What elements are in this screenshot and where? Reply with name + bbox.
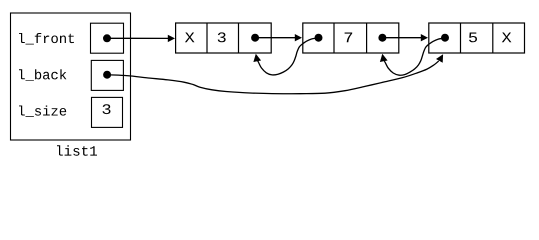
label l_size — [19, 106, 66, 118]
arrow l_front to node 1 (line) — [107, 37, 169, 39]
node 2 cell divider 1 — [333, 23, 335, 53]
arrow l_back to node 3 (curve) — [107, 61, 439, 94]
node 2 box — [303, 23, 399, 53]
node 1 prev value X (null) — [185, 33, 195, 43]
node 1 data value 3 — [218, 32, 226, 42]
l_back pointer dot — [103, 71, 111, 79]
l_size value 3 — [103, 104, 111, 114]
node 2 data value 7 — [345, 33, 353, 43]
l_front pointer dot — [103, 34, 111, 42]
arrow l_front to node 1 (head) — [168, 35, 175, 42]
node 3 cell divider 1 — [460, 23, 462, 53]
node 2 prev pointer dot — [315, 34, 323, 42]
list object outer box — [11, 13, 131, 140]
arrow node 3 prev to node 2 (head) — [380, 54, 388, 62]
label l_back — [19, 69, 66, 81]
node 1 box — [176, 23, 272, 53]
label list1 — [57, 145, 97, 155]
node 3 next value X (null) — [502, 33, 512, 43]
l_front pointer box — [91, 23, 124, 53]
arrow node 1 next to node 2 (head) — [295, 34, 302, 41]
arrow node 3 prev to node 2 (curve) — [384, 38, 445, 75]
label l_front — [19, 33, 74, 45]
arrow node 1 next to node 2 (line) — [255, 37, 296, 39]
node 2 cell divider 2 — [366, 23, 368, 53]
arrow l_back to node 3 (head) — [436, 54, 443, 63]
node 2 next pointer dot — [378, 34, 386, 42]
l_size box — [92, 97, 123, 127]
arrow node 2 prev to node 1 (head) — [253, 54, 261, 62]
node 1 cell divider 1 — [206, 23, 208, 53]
l_back pointer box — [91, 60, 123, 90]
node 3 box — [429, 23, 525, 53]
node 3 cell divider 2 — [492, 23, 494, 53]
node 3 prev pointer dot — [441, 34, 449, 42]
node 1 cell divider 2 — [238, 23, 240, 53]
node 1 next pointer dot — [251, 34, 259, 42]
arrow node 2 next to node 3 (line) — [382, 37, 421, 39]
arrow node 2 next to node 3 (head) — [421, 34, 428, 41]
node 3 data value 5 — [469, 33, 477, 43]
arrow node 2 prev to node 1 (curve) — [258, 38, 319, 75]
